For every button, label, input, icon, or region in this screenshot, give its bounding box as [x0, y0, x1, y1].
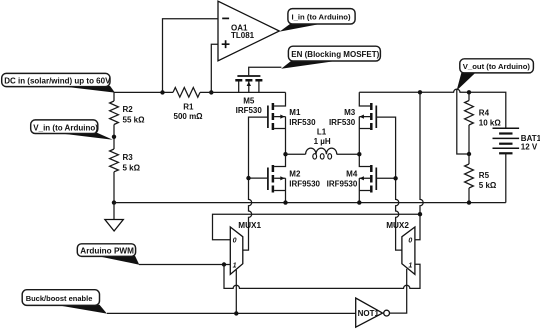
ground rail (bottom rail 1) [114, 202, 506, 204]
svg-text:5 kΩ: 5 kΩ [479, 181, 497, 190]
MUX1 [230, 221, 261, 275]
svg-text:R3: R3 [123, 153, 134, 162]
node dot V_in divider [112, 135, 116, 139]
svg-text:1: 1 [233, 263, 237, 270]
wire op-amp inverting input from R1 left [163, 19, 219, 93]
svg-text:NOT1: NOT1 [358, 309, 380, 318]
wire PWM branch to MUX2 1 input (hops over select and NOT wires) [224, 264, 420, 288]
svg-text:IRF9530: IRF9530 [327, 180, 358, 189]
svg-text:IRF530: IRF530 [236, 106, 263, 115]
svg-text:V_out (to Arduino): V_out (to Arduino) [463, 62, 531, 71]
svg-text:12 V: 12 V [521, 143, 538, 152]
callout Arduino PWM [77, 244, 139, 265]
svg-text:IRF9530: IRF9530 [289, 180, 320, 189]
svg-text:I_in (to Arduino): I_in (to Arduino) [292, 13, 352, 22]
node dot enable branch to MUX1 select [234, 311, 238, 315]
node dot M2 gate junction [246, 176, 250, 180]
node dot R1 right sense [209, 90, 213, 94]
transistor M5 IRF530 (blocking MOSFET, horizontal) [235, 67, 281, 115]
node dot output rail / R4 [467, 90, 471, 94]
svg-text:M2: M2 [289, 170, 301, 179]
svg-text:R1: R1 [183, 103, 194, 112]
node dot switch node right [357, 152, 361, 156]
callout Buck/boost enable [22, 290, 107, 314]
svg-text:Arduino PWM: Arduino PWM [80, 247, 134, 256]
wire Buck/boost enable to NOT1 input [107, 312, 356, 314]
node dot switch node left [283, 152, 287, 156]
wire R2 to R3 [113, 125, 115, 150]
wire V_out sense from callout to divider junction [457, 90, 469, 155]
MUX2 [386, 221, 415, 275]
svg-text:IRF530: IRF530 [289, 118, 316, 127]
svg-text:R4: R4 [479, 108, 490, 117]
wire MUX1 select to enable line [235, 270, 237, 314]
callout V_in (to Arduino) [31, 120, 113, 140]
transistor M4 IRF9530 (mirrored) [327, 154, 377, 202]
wire R1 to M5 to H-bridge top left [200, 91, 286, 93]
callout EN (Blocking MOSFET) [281, 46, 380, 69]
svg-text:TL081: TL081 [231, 31, 255, 40]
ground [105, 203, 123, 231]
wire DC input node to R1 [114, 91, 173, 93]
wire R3 to ground rail [113, 172, 115, 203]
op-amp U1 OA1 TL081 [218, 1, 279, 61]
transistor M1 IRF530 [268, 92, 316, 154]
svg-text:Buck/boost enable: Buck/boost enable [26, 294, 93, 303]
svg-text:R5: R5 [479, 171, 490, 180]
svg-text:M5: M5 [243, 97, 255, 106]
svg-text:V_in (to Arduino): V_in (to Arduino) [33, 123, 98, 132]
svg-text:DC in (solar/wind) up to 60V: DC in (solar/wind) up to 60V [4, 77, 111, 86]
gate bus left (MUX1 output to M1/M2 gates, hops over rails) [243, 117, 268, 250]
resistor R4 10 kOhm [465, 92, 502, 154]
node dot PWM branch [222, 262, 226, 266]
svg-text:MUX2: MUX2 [386, 221, 409, 230]
callout V_out (to Arduino) [457, 59, 534, 91]
inductor L1 1 uH [286, 128, 360, 160]
wire op-amp non-inverting input from R1 right [211, 44, 218, 92]
svg-text:M4: M4 [346, 170, 358, 179]
callout DC in (solar/wind) up to 60V [2, 73, 115, 92]
wire V_out rail down to rail 2 and MUX2 0 input [415, 92, 423, 239]
battery BAT1 12 V [493, 128, 540, 202]
svg-text:1 µH: 1 µH [314, 137, 331, 146]
svg-text:0: 0 [408, 238, 412, 245]
resistor R1 500 mOhm [173, 88, 203, 121]
svg-text:R2: R2 [123, 105, 134, 114]
wire NOT1 output to MUX2 select [390, 269, 407, 313]
svg-text:1: 1 [408, 263, 412, 270]
svg-text:5 kΩ: 5 kΩ [123, 163, 141, 172]
node dot R1 left sense [160, 90, 164, 94]
svg-text:MUX1: MUX1 [238, 221, 261, 230]
resistor R3 5 kOhm [110, 149, 141, 172]
V_out-level rail (bottom rail 2) to MUX1 0 input [213, 214, 421, 240]
callout I_in (to Arduino) [280, 9, 355, 32]
node dot M2 source on ground rail [283, 200, 287, 204]
node dot R5 bottom on ground rail [467, 200, 471, 204]
NOT gate NOT1 [356, 298, 390, 327]
svg-text:L1: L1 [317, 128, 327, 137]
resistor R5 5 kOhm [465, 154, 497, 203]
node dot M4 source on ground rail [357, 200, 361, 204]
svg-text:55 kΩ: 55 kΩ [123, 115, 146, 124]
transistor M3 IRF530 (mirrored) [329, 92, 376, 154]
node dot ground junction [112, 200, 116, 204]
svg-text:M1: M1 [289, 108, 301, 117]
gate bus right (MUX2 output to M3/M4 gates, hops over rails) [376, 117, 402, 250]
svg-text:IRF530: IRF530 [329, 118, 356, 127]
resistor R2 55 kOhm [110, 92, 145, 124]
wire M2 gate lead [249, 177, 268, 179]
transistor M2 IRF9530 [268, 154, 321, 202]
wire Arduino PWM to MUX1 1 input [139, 264, 230, 266]
node dot R4/R5 divider [467, 152, 471, 156]
svg-text:EN (Blocking MOSFET): EN (Blocking MOSFET) [291, 50, 379, 59]
node dot M4 gate junction [393, 176, 397, 180]
svg-text:0: 0 [233, 238, 237, 245]
svg-text:M3: M3 [344, 108, 356, 117]
top output rail with hop over V_out sense wire [359, 89, 506, 128]
wire M4 gate lead [376, 177, 395, 179]
svg-text:10 kΩ: 10 kΩ [479, 118, 502, 127]
node dot output rail / bridge [418, 90, 422, 94]
node dot rail2 junction [418, 212, 422, 216]
svg-text:500 mΩ: 500 mΩ [174, 112, 204, 121]
